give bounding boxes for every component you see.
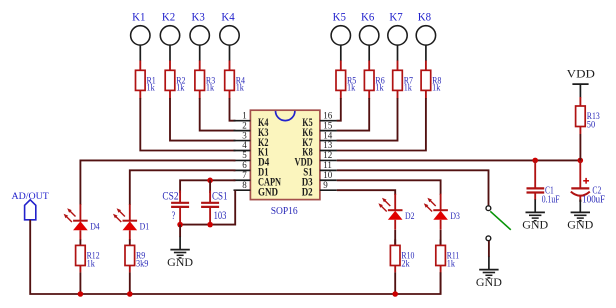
svg-text:SOP16: SOP16 [271,206,298,217]
svg-text:9: 9 [323,180,328,190]
wire pin 5 to LED D4 [80,160,235,205]
svg-text:1k: 1k [347,84,355,94]
resistor R1 1k [136,61,157,99]
LED D2 [378,194,414,230]
node R10 rail junction [392,291,398,297]
svg-text:1k: 1k [206,84,214,94]
wire R8 to pin 13 [337,98,426,151]
resistor R10 2k [390,239,414,294]
ground GND under CS capacitors [167,225,193,269]
svg-text:12: 12 [323,150,332,160]
wire pin 12 VDD rail [337,159,581,161]
svg-text:16: 16 [323,110,333,120]
svg-text:K5: K5 [333,11,347,23]
svg-text:GND: GND [567,218,593,232]
ground GND under C2 [567,199,593,231]
svg-text:D2: D2 [405,212,415,222]
svg-text:10: 10 [323,170,333,180]
IC pin 14 (K7) [302,130,336,149]
port AD/OUT [12,191,49,220]
IC pin 9 (D2) [302,180,337,199]
connector K3 [190,11,209,61]
IC U1 SOP16 body [250,110,320,199]
wire R4 to pin 1 [230,98,236,121]
IC pin 7 (CAPN) [234,170,282,189]
IC pin 16 (K5) [302,110,336,128]
IC pin 13 (K8) [302,140,336,159]
capacitor CS1 103 [201,188,227,224]
IC pin 2 (K3) [234,120,269,139]
svg-text:1k: 1k [236,84,244,94]
svg-text:K1: K1 [132,11,145,23]
capacitor C2 100uF polarized [571,160,606,205]
wire R6 to pin 15 [337,98,370,131]
resistor R11 1k [436,239,460,294]
IC pin 15 (K6) [302,120,336,139]
connector K8 [416,11,435,61]
resistor R3 1k [195,61,216,99]
node CS1 top junction [207,178,213,184]
IC pin 12 (VDD) [295,150,337,169]
svg-text:1k: 1k [87,260,95,270]
svg-text:K7: K7 [389,11,403,23]
IC pin 6 (D1) [234,160,269,179]
svg-text:GND: GND [258,186,278,198]
svg-text:?: ? [172,208,176,222]
svg-text:3: 3 [242,130,247,140]
svg-text:4: 4 [242,140,247,150]
wire pin 6 to LED D1 [130,170,236,205]
resistor R13 50 [576,97,600,134]
resistor R12 1k [76,239,100,294]
svg-text:CS2: CS2 [162,188,178,202]
svg-text:1k: 1k [375,84,383,94]
connector K4 [220,11,239,61]
node R9 rail junction [127,291,133,297]
svg-text:D4: D4 [90,222,100,232]
power VDD [567,68,595,97]
svg-text:7: 7 [242,170,247,180]
wire CS1 top drop [209,180,211,193]
svg-text:2k: 2k [401,260,409,270]
wire LED D3 to R11 [440,230,442,246]
IC pin 10 (D3) [302,170,337,189]
wire LED D2 to R10 [394,230,396,246]
IC pin 1 (K4) [234,110,269,128]
wire pin 9 to LED D2 [337,190,395,195]
svg-text:1k: 1k [147,84,155,94]
wire R7 to pin 14 [337,98,398,141]
wire bottom rail AD/OUT to R11 [30,220,440,294]
IC pin 4 (K1) [234,140,269,159]
resistor R4 1k [225,61,246,99]
node R12 rail junction [78,291,84,297]
IC pin 8 (GND) [234,180,279,199]
LED D1 [113,204,149,240]
svg-text:2: 2 [242,120,247,130]
node C1 tap junction [532,158,538,164]
svg-text:1k: 1k [404,84,412,94]
wire pin 10 to LED D3 [337,180,441,195]
svg-text:K8: K8 [418,11,432,23]
node CS2 bottom junction [177,222,183,228]
resistor R2 1k [165,61,186,99]
svg-text:D2: D2 [302,186,313,198]
svg-text:3k9: 3k9 [136,260,149,270]
svg-text:6: 6 [242,160,247,170]
svg-text:13: 13 [323,140,333,150]
node R13 C2 junction [578,158,584,164]
capacitor CS2 ? [162,188,189,224]
svg-text:0.1uF: 0.1uF [542,194,560,205]
svg-text:5: 5 [242,150,247,160]
capacitor C1 0.1uF [527,160,560,205]
resistor R6 1k [364,61,385,99]
wire pin 7 to capacitors CS2 CS1 [180,180,235,193]
wire capacitor bottoms to pin 8 [180,190,235,224]
ground GND under switch S1 [476,241,502,289]
LED D3 [424,194,460,230]
wire R13 to VDD rail [579,134,581,160]
svg-text:100uF: 100uF [582,195,605,206]
svg-text:GND: GND [522,218,548,232]
connector K7 [388,11,407,61]
switch S1 [486,206,511,241]
svg-text:1k: 1k [432,84,440,94]
svg-text:D3: D3 [450,212,460,222]
svg-text:15: 15 [323,120,333,130]
svg-text:VDD: VDD [567,68,595,80]
connector K5 [331,11,350,61]
svg-text:103: 103 [214,208,227,222]
svg-text:1k: 1k [447,260,455,270]
svg-text:50: 50 [587,121,596,131]
svg-text:14: 14 [323,130,333,140]
svg-text:GND: GND [167,255,193,269]
connector K1 [131,11,150,61]
resistor R7 1k [393,61,414,99]
wire R5 to pin 16 [337,98,341,121]
ground GND under C1 [522,199,548,231]
svg-text:11: 11 [323,160,332,170]
IC pin 3 (K2) [234,130,269,149]
svg-text:1: 1 [242,110,247,120]
wire R2 to pin 3 [170,98,236,141]
svg-text:K4: K4 [221,11,235,23]
LED D4 [64,204,100,240]
resistor R5 1k [336,61,357,99]
resistor R8 1k [421,61,442,99]
IC pin 5 (D4) [234,150,270,169]
svg-text:K2: K2 [162,11,175,23]
svg-text:K6: K6 [361,11,375,23]
svg-text:K3: K3 [192,11,206,23]
wire pin 11 to switch S1 [337,170,489,205]
svg-text:8: 8 [242,180,247,190]
svg-text:CS1: CS1 [212,188,228,202]
resistor R9 3k9 [125,239,149,294]
connector K2 [160,11,179,61]
svg-text:1k: 1k [176,84,184,94]
wire R1 to pin 4 [140,98,235,151]
svg-text:GND: GND [476,275,502,289]
IC pin 11 (S1) [303,160,337,179]
wire R3 to pin 2 [200,98,236,131]
connector K6 [360,11,379,61]
node CS1 bottom junction [207,222,213,228]
svg-text:D1: D1 [140,222,150,232]
